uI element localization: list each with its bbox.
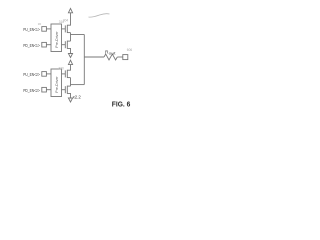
svg-text:30: 30	[38, 22, 42, 26]
svg-text:x2.2: x2.2	[73, 95, 82, 100]
svg-text:606: 606	[127, 48, 133, 52]
svg-text:PU_EN<1>: PU_EN<1>	[23, 27, 40, 32]
svg-text:FIG. 6: FIG. 6	[112, 101, 131, 108]
svg-text:PD_EN<2>: PD_EN<2>	[23, 88, 40, 93]
svg-text:Pre-Driver: Pre-Driver	[55, 31, 59, 48]
svg-text:304: 304	[63, 19, 69, 23]
svg-text:Pre-Driver: Pre-Driver	[55, 76, 59, 93]
svg-text:PD_EN<1>: PD_EN<1>	[23, 43, 40, 48]
svg-text:PU_EN<2>: PU_EN<2>	[23, 72, 40, 77]
svg-text:320: 320	[59, 67, 65, 71]
svg-text:out: out	[109, 51, 116, 55]
